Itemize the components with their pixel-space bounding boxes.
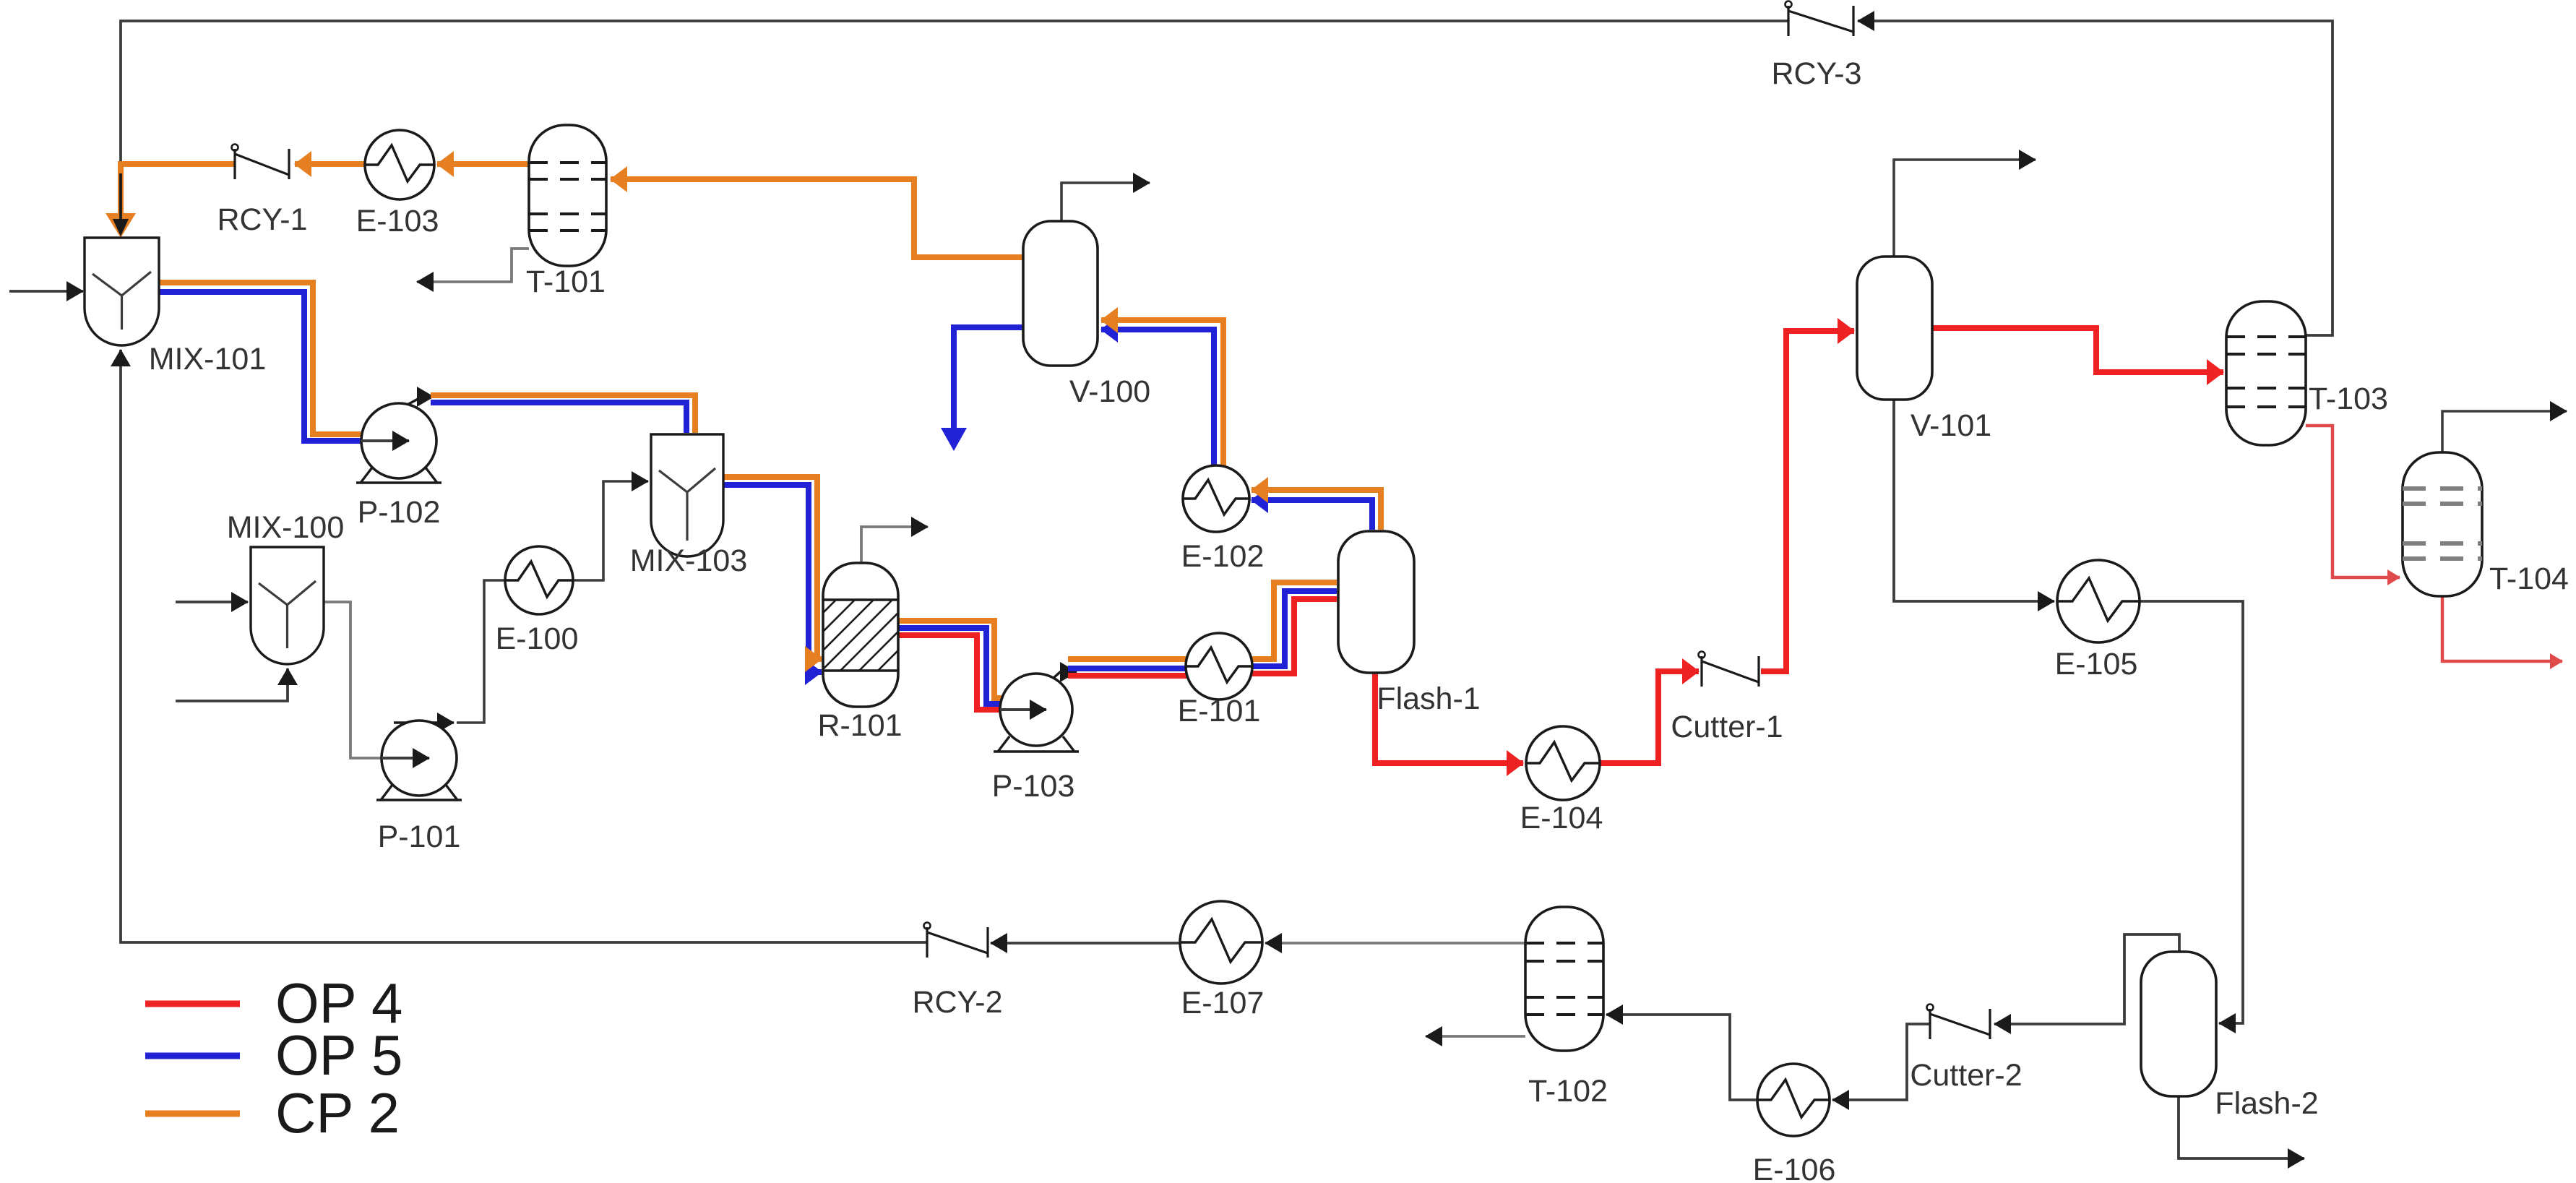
wire: CP2 orange P-103 to E-101 — [1068, 656, 1192, 662]
label P-102 — [358, 495, 441, 530]
column T-101 — [529, 125, 606, 266]
wire: OP5 blue E-101 to Flash-1 — [1249, 591, 1337, 666]
svg-text:OP 5: OP 5 — [275, 1023, 402, 1087]
label P-101 — [378, 820, 461, 854]
wire: E-100 to MIX-103 — [573, 481, 648, 580]
mixer MIX-100 — [251, 547, 324, 664]
wire: Cutter-2 to E-106 — [1832, 1024, 1930, 1100]
mixer MIX-101 — [85, 238, 159, 345]
svg-text:T-101: T-101 — [526, 264, 606, 299]
label MIX-101 — [149, 342, 267, 377]
wire: CP2 orange MIX-103 to R-101 — [723, 477, 822, 659]
vessel V-101 — [1857, 257, 1932, 400]
svg-text:P-102: P-102 — [358, 495, 441, 530]
wire: CP2 orange Flash-1 to E-102 — [1252, 490, 1381, 530]
heat exchanger E-100 — [505, 546, 573, 614]
wire: E-107 to RCY-2 — [991, 942, 1181, 945]
svg-text:E-100: E-100 — [496, 621, 579, 656]
legend OP 5 text — [275, 1023, 402, 1087]
svg-text:RCY-2: RCY-2 — [912, 985, 1002, 1020]
wire: MIX-100 to P-101 — [324, 602, 382, 758]
wire: OP5 blue V-100 liquid outlet — [941, 327, 1023, 451]
recycle RCY-1 — [232, 145, 290, 180]
wire: OP5 blue P-103 to E-101 — [1068, 666, 1189, 671]
label V-100 — [1069, 374, 1150, 409]
heat exchanger E-107 — [1180, 901, 1262, 984]
legend OP 5 blue sample line — [145, 1053, 240, 1059]
legend OP 4 text — [275, 971, 402, 1035]
wire: OP4 red Flash-1 to E-104 — [1375, 671, 1523, 763]
label Cutter-2 — [1910, 1058, 2022, 1093]
wire: RCY-3 to MIX-101 top (black over orange) — [121, 21, 1788, 219]
wire: P-103 discharge arrow — [1046, 672, 1077, 684]
wire: OP5 blue P-102 to MIX-103 — [431, 403, 686, 433]
heat exchanger E-104 — [1526, 726, 1600, 800]
svg-text:MIX-103: MIX-103 — [630, 543, 748, 578]
wire: CP2 orange E-103 to RCY-1 — [295, 161, 365, 167]
wire: feed 2 into MIX-100 bottom — [176, 668, 288, 701]
wire: V-101 vent — [1894, 160, 2036, 257]
label E-105 — [2055, 647, 2138, 681]
recycle RCY-3 — [1785, 1, 1854, 37]
wire: V-101 bottoms to E-105 — [1894, 400, 2054, 601]
wire: P-102 discharge arrow — [405, 397, 434, 406]
wire: OP4 red E-104 to Cutter-1 — [1600, 671, 1699, 763]
wire: OP5 blue E-102 to V-100 — [1101, 330, 1214, 467]
wire: OP4 red V-101 to T-103 — [1932, 328, 2223, 372]
wire: R-101 vent — [861, 527, 928, 563]
wire: CP2 orange RCY-1 to MIX-101 — [121, 164, 235, 215]
label RCY-3 — [1771, 56, 1861, 91]
svg-text:E-104: E-104 — [1520, 801, 1603, 835]
pump P-103 — [994, 674, 1079, 752]
label MIX-100 — [227, 510, 345, 545]
column T-103 — [2226, 301, 2306, 445]
label Flash-1 — [1377, 681, 1480, 716]
wire: P-101 discharge arrow — [394, 721, 454, 724]
label RCY-1 — [217, 202, 307, 237]
pump P-101 — [376, 720, 462, 800]
heat exchanger E-106 — [1757, 1064, 1830, 1136]
svg-text:MIX-101: MIX-101 — [149, 342, 267, 377]
svg-text:V-100: V-100 — [1069, 374, 1150, 409]
svg-text:E-103: E-103 — [356, 204, 439, 238]
wire: E-106 to T-102 — [1606, 1015, 1757, 1100]
label Flash-2 — [2215, 1086, 2318, 1121]
wire: P-101 to E-100 — [457, 580, 506, 723]
column T-104 — [2403, 452, 2482, 596]
wire: CP2 orange P-102 to MIX-103 — [431, 395, 695, 433]
svg-text:P-103: P-103 — [992, 769, 1075, 804]
reactor R-101 — [765, 563, 968, 707]
svg-text:E-107: E-107 — [1181, 986, 1265, 1020]
heat exchanger E-105 — [2057, 560, 2140, 642]
wire: CP2 orange arrow into MIX-101 top — [105, 213, 136, 238]
pump P-102 — [356, 403, 441, 483]
svg-text:E-101: E-101 — [1178, 694, 1261, 728]
label T-101 — [526, 264, 606, 299]
wire: OP5 blue R-101 to P-103 — [898, 628, 1001, 704]
wire: OP5 blue MIX-103 to R-101 — [723, 485, 822, 672]
legend CP 2 orange sample line — [145, 1111, 240, 1117]
wire: Flash-2 vapor to Cutter-2 — [1994, 934, 2179, 1024]
legend OP 4 red sample line — [145, 1001, 240, 1007]
legend CP 2 text — [275, 1081, 400, 1145]
svg-text:E-105: E-105 — [2055, 647, 2138, 681]
wire: OP5 blue MIX-101 to P-102 — [159, 292, 362, 441]
wire: OP5 blue Flash-1 to E-102 — [1252, 500, 1372, 530]
vessel Flash-1 — [1338, 531, 1414, 673]
wire: CP2 orange R-101 to P-103 — [898, 621, 1001, 698]
wire: feed 1 into MIX-100 — [176, 601, 248, 603]
svg-text:T-104: T-104 — [2489, 562, 2569, 596]
svg-text:Flash-2: Flash-2 — [2215, 1086, 2318, 1121]
wire: CP2 orange E-101 to Flash-1 — [1249, 582, 1337, 659]
label T-102 — [1528, 1074, 1608, 1109]
label P-103 — [992, 769, 1075, 804]
wire: feed into MIX-101 — [9, 290, 83, 293]
wire: CP2 orange E-102 to V-100 — [1101, 320, 1223, 467]
svg-text:RCY-3: RCY-3 — [1771, 56, 1861, 91]
wire: top recycle frame from T-103 right to RCY-3 — [1858, 21, 2332, 335]
wire: CP2 orange T-101 to E-103 — [437, 161, 529, 167]
wire: T-104 overhead vent — [2442, 411, 2567, 452]
wire: red T-103 bottoms to T-104 — [2306, 426, 2400, 577]
label RCY-2 — [912, 985, 1002, 1020]
label E-106 — [1753, 1153, 1836, 1183]
cutter Cutter-1 — [1699, 652, 1759, 687]
label E-101 — [1178, 694, 1261, 728]
svg-text:MIX-100: MIX-100 — [227, 510, 345, 545]
svg-text:R-101: R-101 — [817, 708, 902, 743]
wire: red T-104 bottoms product — [2442, 596, 2562, 661]
svg-text:P-101: P-101 — [378, 820, 461, 854]
vessel Flash-2 — [2141, 952, 2216, 1096]
svg-text:V-101: V-101 — [1911, 408, 1991, 443]
wire: T-101 bottoms product — [417, 249, 529, 282]
svg-text:Cutter-1: Cutter-1 — [1671, 710, 1783, 744]
svg-text:E-106: E-106 — [1753, 1153, 1836, 1183]
label E-104 — [1520, 801, 1603, 835]
heat exchanger E-102 — [1183, 465, 1249, 532]
wire: CP2 orange MIX-101 to P-102 — [159, 283, 362, 434]
svg-text:T-102: T-102 — [1528, 1074, 1608, 1109]
heat exchanger E-103 — [365, 130, 434, 199]
wire: E-105 to Flash-2 — [2140, 601, 2243, 1023]
wire: RCY-2 to MIX-101 bottom — [121, 350, 927, 942]
label E-107 — [1181, 986, 1265, 1020]
wire: V-100 vent — [1061, 183, 1150, 221]
label E-102 — [1181, 539, 1265, 574]
vessel V-100 — [1023, 221, 1098, 366]
wire: OP4 red Cutter-1 to V-101 — [1761, 331, 1854, 671]
label T-104 — [2489, 562, 2569, 596]
svg-text:E-102: E-102 — [1181, 539, 1265, 574]
label MIX-103 — [630, 543, 748, 578]
wire: Flash-2 bottoms product — [2179, 1096, 2304, 1158]
label T-103 — [2309, 382, 2388, 416]
mixer MIX-103 — [651, 434, 723, 556]
wire: black arrow into MIX-101 top — [113, 173, 129, 236]
wire: OP4 red R-101 to P-103 — [898, 635, 1001, 710]
column T-102 — [1525, 907, 1603, 1051]
wire: OP4 red E-101 to Flash-1 — [1249, 599, 1337, 674]
heat exchanger E-101 — [1186, 633, 1252, 700]
svg-text:Cutter-2: Cutter-2 — [1910, 1058, 2022, 1093]
svg-text:T-103: T-103 — [2309, 382, 2388, 416]
wire: T-102 bottoms product — [1426, 1035, 1525, 1038]
label E-103 — [356, 204, 439, 238]
label V-101 — [1911, 408, 1991, 443]
svg-text:RCY-1: RCY-1 — [217, 202, 307, 237]
svg-text:CP 2: CP 2 — [275, 1081, 400, 1145]
label R-101 — [817, 708, 902, 743]
label Cutter-1 — [1671, 710, 1783, 744]
wire: OP4 red P-103 to E-101 — [1068, 673, 1192, 679]
cutter Cutter-2 — [1927, 1005, 1991, 1040]
wire: CP2 orange V-100 to T-101 — [611, 179, 1023, 257]
recycle RCY-2 — [924, 923, 988, 958]
wire: bottom recycle T-102 to E-107 — [1265, 942, 1525, 945]
svg-text:Flash-1: Flash-1 — [1377, 681, 1480, 716]
label E-100 — [496, 621, 579, 656]
